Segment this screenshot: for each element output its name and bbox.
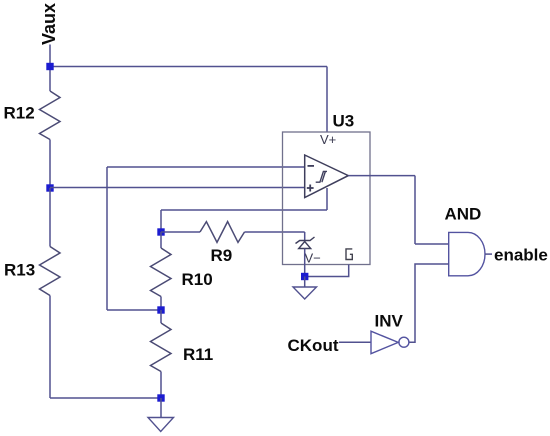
svg-text:CKout: CKout [288,336,339,355]
wire R9 to zener [245,231,305,233]
wire to AND input 1 [415,243,449,245]
wire G pin down [305,265,349,277]
wire node to R10 top [160,232,162,248]
wire AND output [485,253,492,255]
wire rail down to U3 V+ [326,67,328,133]
wire R11 bottom to ground node [160,372,162,399]
node Vaux/R12 junction [46,63,53,70]
pin plus sign [307,185,314,192]
zener diode clamp [296,237,315,249]
wire node to R9 [161,231,200,233]
wire node to ground [304,277,306,288]
svg-text:AND: AND [445,205,482,224]
resistor R10 [151,248,172,297]
wire R13 bottom to ground node [50,397,161,399]
wire to R10/R11 junction [107,309,161,311]
wire CKout to inverter [339,341,371,343]
resistor R12 [40,91,61,140]
wire zener to node [304,249,306,277]
wire R12 bottom to node [49,140,51,189]
wire output down [414,176,416,244]
pin G glyph [346,249,352,260]
wire junction to comparator plus input [50,187,305,189]
node R11/ground junction [157,394,164,401]
hysteresis symbol [316,171,327,182]
resistor R13 [40,247,61,296]
op-amp U3 triangle [305,155,349,198]
wire node to R11 top [160,310,162,323]
wire node to ground symbol [160,398,162,418]
svg-text:R10: R10 [182,270,213,289]
svg-text:R13: R13 [4,261,35,280]
svg-text:R12: R12 [4,104,35,123]
svg-text:R11: R11 [183,345,213,364]
resistor R11 [151,323,172,372]
svg-text:V+: V+ [320,132,336,147]
ground symbol U3 [293,287,317,299]
svg-text:Vaux: Vaux [39,3,59,45]
svg-text:V−: V− [305,251,321,266]
ground symbol bottom [148,418,174,432]
wire node to R13 top [49,188,51,247]
wire Vaux to node [49,45,51,67]
svg-text:enable: enable [494,246,548,265]
wire feedback horizontal [161,209,327,211]
inverter bubble [399,337,409,347]
svg-text:R9: R9 [211,246,233,265]
wire Vaux rail horizontal [50,66,327,68]
wire comparator minus input [107,166,305,168]
resistor R9 [200,222,245,243]
node R9/R10 junction [157,228,164,235]
wire comparator output [348,175,415,177]
svg-text:U3: U3 [333,112,355,131]
wire AND input 2 [409,264,449,342]
wire down to zener cathode [304,232,306,241]
pin minus sign [308,165,315,167]
wire minus input down [106,167,108,310]
AND gate [449,232,485,275]
wire feedback down to R9 node [160,210,162,232]
inverter INV triangle [371,331,398,354]
node R12/R13 junction [46,184,53,191]
comparator block U3 box [283,132,371,265]
wire node to R12 top [49,67,51,92]
wire feedback from triangle bottom [326,188,328,210]
svg-text:INV: INV [375,312,404,331]
wire R10 bottom to node [160,297,162,311]
wire R13 bottom down [49,296,51,399]
node V-/G junction [301,273,308,280]
node R10/R11 junction [157,306,164,313]
